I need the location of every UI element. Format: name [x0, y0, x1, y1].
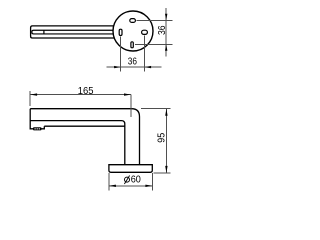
diameter symbol — [124, 176, 129, 185]
svg-text:60: 60 — [131, 174, 141, 185]
seam — [43, 30, 45, 34]
bar inner slot (top view) — [32, 30, 113, 34]
slot bottom — [131, 42, 133, 48]
middle line into post left edge — [30, 121, 125, 165]
slot top — [130, 19, 136, 23]
svg-text:165: 165 — [78, 86, 94, 97]
base — [109, 165, 152, 173]
slot right — [142, 30, 148, 34]
slot left — [119, 29, 122, 35]
lip bottom — [44, 125, 125, 127]
flange circle — [113, 11, 153, 51]
logo label — [33, 127, 42, 130]
svg-text:36: 36 — [128, 56, 137, 67]
svg-text:36: 36 — [157, 25, 168, 35]
svg-text:95: 95 — [157, 133, 168, 143]
end cap left edge + bottom + step — [30, 109, 44, 129]
outer: top edge, rounded corner, right edge of post — [30, 109, 139, 165]
bar outline (top view) — [31, 26, 115, 38]
